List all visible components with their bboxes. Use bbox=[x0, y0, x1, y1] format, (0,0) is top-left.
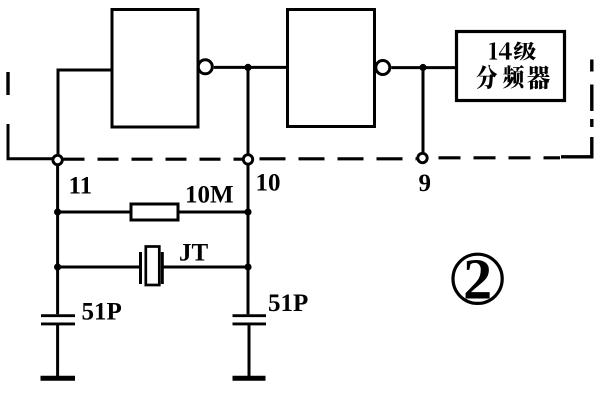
inverter gate U1 bbox=[112, 10, 198, 128]
ground (right) bbox=[233, 376, 266, 381]
wire: U1 input from node 11 bbox=[58, 70, 112, 155]
junction dot left rail / resistor bbox=[54, 208, 61, 215]
node 10 (pin circle) bbox=[243, 155, 252, 164]
svg-text:9: 9 bbox=[419, 170, 432, 197]
capacitor C2 bottom plate bbox=[233, 322, 267, 325]
crystal JT right plate bbox=[161, 252, 164, 284]
svg-text:10: 10 bbox=[256, 170, 281, 197]
resistor R1 body bbox=[131, 204, 178, 220]
wire: resistor to right rail bbox=[178, 211, 248, 214]
wire: U2 output to divider bbox=[391, 66, 456, 69]
wire: C2 to ground bbox=[248, 325, 251, 376]
inverter gate U2 bbox=[288, 10, 375, 127]
wire: crystal to right rail bbox=[162, 266, 248, 269]
crystal JT body bbox=[146, 247, 160, 286]
U2 output bubble bbox=[376, 61, 390, 75]
node 11 (pin circle) bbox=[53, 155, 62, 164]
IC boundary: left solid corner bbox=[8, 124, 53, 159]
svg-text:JT: JT bbox=[179, 240, 209, 267]
wire: C1 to ground bbox=[56, 325, 59, 376]
divider label line 2: 分频器 bbox=[476, 65, 497, 89]
wire: U1 output to U2 input bbox=[214, 66, 288, 69]
U1 output bubble bbox=[198, 60, 212, 74]
crystal JT left plate bbox=[139, 252, 142, 284]
junction dot right rail / resistor bbox=[244, 208, 251, 215]
capacitor C1 top plate bbox=[41, 314, 75, 317]
14-stage frequency divider box bbox=[457, 32, 565, 101]
svg-text:2: 2 bbox=[463, 247, 492, 312]
wire: node 10 down to capacitor C2 bbox=[247, 164, 250, 314]
dashed IC boundary: left vertical dash bbox=[6, 72, 9, 95]
wire: junction down to node 9 bbox=[422, 68, 425, 153]
IC boundary: right vertical dashes bbox=[590, 60, 593, 128]
junction dot right rail / crystal bbox=[244, 263, 251, 270]
wire: left rail to crystal bbox=[58, 266, 141, 269]
wire: left rail to resistor bbox=[58, 211, 131, 214]
divider label line 1: 14级 bbox=[489, 42, 497, 59]
svg-text:10M: 10M bbox=[185, 182, 234, 209]
dashed bus line: node 10 to node 9 bbox=[254, 157, 417, 160]
figure number 2 in circle bbox=[453, 254, 502, 303]
wire: junction down to node 10 bbox=[247, 67, 250, 154]
capacitor C1 bottom plate bbox=[41, 322, 75, 325]
node 9 (pin circle) bbox=[418, 153, 427, 162]
svg-text:11: 11 bbox=[69, 173, 93, 200]
IC boundary: right corner bbox=[561, 137, 592, 157]
svg-text:51P: 51P bbox=[82, 298, 122, 325]
dashed bus line: node 11 to node 10 bbox=[64, 158, 243, 161]
wire: node 11 down to capacitor C1 bbox=[56, 165, 59, 315]
dashed bus line: node 9 to right corner bbox=[429, 156, 561, 159]
capacitor C2 top plate bbox=[233, 314, 267, 317]
svg-text:51P: 51P bbox=[268, 290, 308, 317]
junction dot between U2 and divider bbox=[419, 64, 426, 71]
ground (left) bbox=[41, 376, 76, 381]
junction dot between U1 and U2 bbox=[244, 64, 251, 71]
junction dot left rail / crystal bbox=[54, 263, 61, 270]
